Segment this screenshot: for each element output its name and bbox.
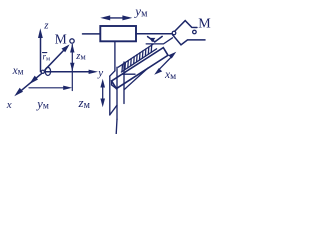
svg-text:M: M [55,32,67,47]
svg-text:хм: хм [12,65,24,77]
svg-text:zм: zм [78,95,91,111]
svg-text:ум: ум [133,3,148,19]
svg-text:хм: хм [164,69,176,82]
svg-text:z: z [43,20,49,32]
svg-text:M: M [198,16,211,31]
svg-text:zм: zм [75,51,86,62]
svg-text:x: x [6,99,12,111]
svg-text:y: y [97,67,103,79]
svg-text:ум: ум [35,97,49,112]
